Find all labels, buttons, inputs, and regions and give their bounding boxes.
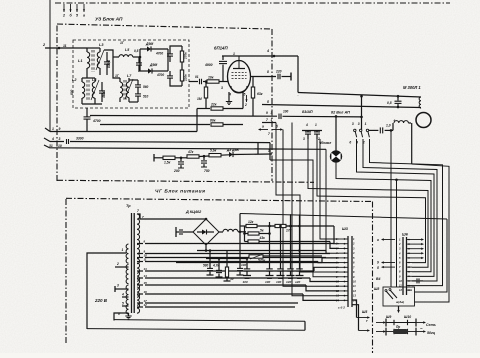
svg-text:1: 1 — [268, 149, 270, 153]
svg-text:Сеть: Сеть — [426, 323, 436, 327]
wire switch-2 to Ш6 — [370, 139, 443, 286]
label 83/АП — [302, 110, 313, 114]
junction lamp-wire — [335, 115, 338, 118]
L2-L4 core — [87, 80, 89, 100]
svg-text:3: 3 — [59, 137, 61, 141]
filter choke — [219, 229, 246, 233]
top feed arrow а — [83, 4, 85, 18]
rail 258 — [206, 258, 246, 260]
label ЧГ Блок питания — [155, 189, 205, 195]
tap 5 — [122, 302, 129, 307]
transformer ground — [125, 313, 131, 319]
anode wire pin 4 — [222, 49, 298, 57]
wire pin7 to Ш3 — [292, 123, 339, 296]
wire а to Ш3 — [283, 130, 339, 287]
capacitor 750 — [201, 156, 210, 173]
svg-text:6: 6 — [349, 141, 351, 145]
svg-text:1М: 1М — [197, 97, 202, 101]
svg-text:800,6: 800,6 — [107, 60, 111, 68]
svg-text:80к: 80к — [210, 119, 216, 123]
switch Ш8 — [383, 287, 415, 306]
wire 43к to Ш3 — [330, 242, 339, 249]
svg-text:82 Вкл АП: 82 Вкл АП — [331, 111, 350, 115]
tube V1 6П14П — [221, 52, 251, 97]
speaker Гр1 — [416, 113, 431, 128]
svg-text:3: 3 — [358, 122, 360, 126]
svg-text:270к: 270к — [184, 52, 188, 60]
secondary tap 16 wire — [137, 290, 339, 300]
svg-text:1: 1 — [365, 122, 367, 126]
wire pin 7-1 — [262, 118, 276, 123]
Ш6 output arrows — [412, 238, 424, 259]
arrow а — [377, 238, 395, 242]
svg-text:5: 5 — [244, 93, 246, 97]
svg-text:3300: 3300 — [76, 137, 84, 141]
resistor 43к — [245, 236, 331, 243]
УЗ block top border — [57, 24, 272, 29]
tube output wire pin 8 — [251, 70, 277, 77]
svg-text:4700: 4700 — [156, 73, 164, 77]
svg-text:Ш9: Ш9 — [386, 315, 391, 319]
junctions — [205, 249, 221, 260]
label 82 Вкл АП — [331, 111, 350, 115]
resistor 63к — [251, 77, 262, 116]
rail riser 1 — [268, 222, 271, 267]
left bent leads — [44, 128, 50, 148]
svg-text:6П14П: 6П14П — [214, 46, 228, 51]
wire 31-10 to Ш3 — [326, 149, 339, 253]
svg-text:100: 100 — [265, 280, 270, 284]
svg-text:9: 9 — [59, 127, 61, 131]
speaker return wire — [262, 100, 421, 108]
arrow 9 — [377, 261, 395, 265]
wire pin 7-1 to Ш3 — [276, 123, 339, 273]
svg-text:3: 3 — [221, 86, 223, 90]
top feed arrow б — [69, 4, 72, 18]
bridge left terminal — [176, 227, 193, 237]
svg-text:а: а — [83, 14, 85, 18]
svg-text:2: 2 — [244, 103, 247, 107]
tuner coil compartment (dashed) — [73, 40, 189, 108]
svg-text:220: 220 — [275, 70, 282, 74]
svg-text:510: 510 — [143, 95, 149, 99]
stub 4-3 — [269, 143, 271, 160]
resistor 5,6к — [209, 149, 229, 157]
svg-text:2: 2 — [116, 262, 119, 266]
svg-text:Ш8: Ш8 — [374, 287, 379, 291]
svg-text:ж(Ав): ж(Ав) — [395, 300, 404, 304]
capacitor 100 first — [237, 232, 247, 275]
inductor L3 with trimmer — [96, 43, 104, 75]
svg-text:83/АП: 83/АП — [302, 110, 313, 114]
capacitor 1,0 — [369, 119, 396, 134]
bottom rail 1 — [114, 320, 305, 331]
svg-text:120: 120 — [286, 280, 291, 284]
L7 wiring — [113, 49, 141, 102]
svg-text:100: 100 — [241, 263, 246, 267]
speaker feed wire — [298, 93, 421, 98]
antenna terminal — [290, 73, 292, 81]
junction — [297, 94, 299, 96]
capacitor 200 — [173, 157, 184, 174]
wire pin 9-3 — [90, 111, 277, 116]
svg-text:а: а — [377, 238, 379, 242]
labels 580 4,7к — [203, 264, 219, 268]
svg-text:220к: 220к — [184, 74, 188, 82]
detector wiring — [168, 46, 182, 86]
wire switch-6 to Ш6 — [357, 139, 435, 276]
svg-text:Ш10: Ш10 — [404, 315, 411, 319]
svg-text:5: 5 — [122, 302, 124, 306]
inductor L2 — [72, 78, 85, 104]
svg-text:50гц: 50гц — [427, 331, 436, 335]
capacitor L4 tank — [99, 82, 105, 102]
secondary tap 15 wire — [137, 281, 339, 291]
secondary tap 9 wire — [137, 250, 330, 254]
bridge rectifier Д КЦ402 — [193, 219, 219, 245]
svg-text:1,5к: 1,5к — [164, 161, 171, 165]
secondary tap 12 wire — [137, 303, 295, 307]
resistor 570к — [246, 255, 322, 263]
svg-text:560: 560 — [143, 85, 149, 89]
wire anode riser — [297, 56, 299, 93]
svg-text:11: 11 — [63, 44, 67, 48]
label В4 — [376, 277, 380, 281]
secondary tap 10 wire — [137, 254, 326, 258]
svg-text:0,5: 0,5 — [134, 49, 139, 53]
capacitor 01 — [189, 75, 206, 84]
tap 2 — [115, 262, 129, 267]
wire cap3 down — [308, 139, 428, 267]
rail 250 — [197, 251, 326, 253]
secondary tap 17 wire — [137, 299, 298, 303]
secondary tap 13 wire — [137, 267, 339, 271]
power block right border — [372, 202, 374, 354]
svg-text:4: 4 — [121, 293, 124, 297]
svg-text:1: 1 — [315, 123, 317, 127]
svg-text:1,0: 1,0 — [386, 124, 391, 128]
diode Д2 Д9М — [140, 63, 168, 74]
svg-text:L1: L1 — [78, 59, 82, 63]
svg-text:3: 3 — [117, 284, 119, 288]
capacitor 510 — [135, 90, 149, 102]
mains connector rails — [386, 319, 416, 336]
svg-text:30: 30 — [230, 277, 234, 281]
label Тр — [126, 204, 139, 213]
wire to Ш3 p9 — [270, 160, 339, 277]
labels Ш9 Ш10 — [386, 315, 411, 319]
dual capacitor 4700 — [302, 123, 322, 141]
label 220 В — [94, 298, 108, 303]
svg-text:7: 7 — [137, 209, 139, 213]
svg-text:Тр: Тр — [126, 204, 131, 208]
label Ш8 — [374, 287, 379, 291]
label М 300Л 1 — [403, 85, 421, 90]
top feed arrow 5 — [76, 4, 79, 18]
secondary tap 8 wire — [137, 240, 334, 244]
filter capacitor bank — [243, 259, 304, 285]
svg-text:Д КЦ402: Д КЦ402 — [185, 210, 202, 214]
wire switch-4 to Ш6 — [363, 139, 437, 281]
capacitor L3 tank — [104, 52, 110, 75]
svg-text:Пр: Пр — [396, 325, 400, 329]
svg-text:4,7к: 4,7к — [212, 264, 219, 268]
bottom rail 2 (mains) — [87, 329, 305, 331]
resistor 22к — [197, 103, 243, 111]
capacitor 0,5 — [134, 49, 142, 72]
switch В2 Вкл АП — [349, 95, 369, 145]
tube pin 5 lead — [243, 92, 248, 109]
capacitor 580 — [207, 251, 214, 279]
wire to Ш5 lower — [352, 305, 370, 332]
rail riser 2 — [279, 225, 282, 267]
svg-text:4700: 4700 — [92, 119, 101, 123]
svg-text:4: 4 — [305, 123, 308, 127]
diode Д3 Д9В — [226, 148, 272, 157]
tap 4 — [121, 293, 129, 298]
secondary tap 11 wire — [137, 258, 339, 263]
resistor 47к — [187, 150, 209, 158]
capacitor on pin 7 — [412, 278, 423, 283]
svg-text:22к: 22к — [210, 103, 217, 107]
resistor 12к — [240, 220, 334, 228]
link 4-3 to diode chain — [257, 142, 259, 154]
transformer core — [132, 213, 135, 313]
label Д КЦ402 — [185, 210, 202, 214]
inductor L5 — [113, 41, 140, 57]
capacitor 220 — [275, 70, 291, 80]
wire to Ш3 pin 1 — [320, 139, 339, 239]
svg-text:580: 580 — [203, 264, 209, 268]
svg-text:Чбнамл: Чбнамл — [319, 141, 331, 145]
wire 1-9 — [50, 127, 197, 132]
svg-text:Ш6: Ш6 — [402, 233, 409, 237]
rail riser 3 — [289, 214, 292, 266]
speaker return riser — [411, 123, 413, 164]
resistor 10к grid stopper — [207, 76, 228, 84]
L1-L3 core — [92, 50, 94, 72]
input bus wire — [49, 0, 51, 131]
capacitor 4900 — [204, 56, 227, 81]
input terminal — [154, 154, 163, 162]
svg-text:4700: 4700 — [155, 52, 163, 56]
value 800,6 — [107, 60, 111, 68]
mains output arrows — [416, 321, 426, 332]
B+ rail to relay — [240, 214, 447, 293]
svg-text:100: 100 — [243, 280, 248, 284]
wire lamp to Ш6 — [336, 163, 431, 272]
svg-text:43к: 43к — [259, 236, 266, 240]
svg-text:М 300Л 1: М 300Л 1 — [403, 85, 421, 90]
svg-text:9: 9 — [266, 111, 268, 115]
svg-text:220 В: 220 В — [94, 298, 108, 303]
tap 3 — [115, 284, 129, 293]
resistor 4,7к — [224, 251, 234, 282]
wire cap2 down — [317, 139, 426, 263]
value 4600 — [102, 91, 106, 99]
svg-text:200: 200 — [173, 169, 180, 173]
resistor 80к — [100, 119, 243, 127]
inductor L1 — [78, 48, 90, 75]
capacitor 560 — [135, 80, 149, 90]
top feed arrow 2 — [62, 4, 65, 18]
УЗ block left border — [56, 24, 58, 181]
svg-text:х20: х20 — [294, 280, 300, 284]
resistor 220к — [180, 66, 187, 86]
svg-text:570к: 570к — [258, 259, 266, 263]
svg-text:7: 7 — [266, 118, 268, 122]
label Сеть 50гц — [420, 323, 436, 335]
svg-text:В4: В4 — [376, 277, 380, 281]
rail 262 to Ш3 — [176, 258, 339, 263]
capacitor 4700 shunt — [84, 108, 101, 131]
svg-text:1: 1 — [122, 248, 124, 252]
svg-text:7: 7 — [268, 132, 270, 136]
wire 31-10 — [49, 144, 326, 149]
relay down arrow — [397, 306, 400, 313]
svg-text:4: 4 — [51, 137, 54, 141]
wire L3 to L5 — [104, 50, 113, 57]
svg-text:Ш5: Ш5 — [362, 310, 367, 314]
bridge top feed — [191, 218, 207, 221]
svg-text:0,5: 0,5 — [387, 101, 392, 105]
fuse Пр — [393, 325, 408, 334]
svg-text:3: 3 — [271, 111, 273, 115]
svg-text:8: 8 — [267, 70, 269, 74]
svg-text:Д3 Д9В: Д3 Д9В — [226, 148, 239, 152]
resistor 5к — [245, 229, 270, 236]
riser to relay a — [390, 129, 393, 287]
svg-text:10к: 10к — [208, 76, 214, 80]
capacitor 4700 (2) — [156, 71, 173, 84]
label с б 2 — [338, 306, 345, 310]
upper block boundary (dash-dot, cut off at top) — [55, 2, 450, 4]
svg-text:12к: 12к — [248, 220, 254, 224]
resistor 1,5к — [163, 156, 187, 164]
svg-text:01: 01 — [195, 75, 199, 79]
lamp Л1 — [330, 116, 342, 163]
value 800 — [70, 89, 74, 95]
wire to Ш5 upper — [352, 300, 370, 319]
riser to relay b — [395, 179, 398, 288]
label — [319, 141, 331, 145]
svg-text:2: 2 — [62, 14, 65, 18]
power block top border — [66, 198, 373, 201]
svg-text:47к: 47к — [187, 150, 194, 154]
coupling capacitor 100 — [279, 110, 362, 120]
connector Ш3 — [335, 227, 356, 307]
svg-text:3: 3 — [352, 122, 354, 126]
transformer primary winding — [126, 244, 128, 314]
svg-text:750: 750 — [204, 169, 210, 173]
inductor L6 — [115, 74, 123, 102]
winding 7 wire — [137, 214, 191, 219]
inductor L7 with trimmer — [125, 74, 133, 102]
label УЗ Блок АП — [95, 17, 123, 23]
svg-text:~: ~ — [420, 326, 423, 331]
svg-text:с б 2: с б 2 — [338, 306, 345, 310]
cap1 tap — [246, 257, 249, 260]
resistor 1М grid leak — [197, 80, 208, 108]
svg-text:Г: Г — [366, 319, 368, 323]
svg-text:4600: 4600 — [102, 91, 106, 99]
tap 6 — [118, 312, 129, 316]
tap6 to rail — [114, 313, 121, 321]
УЗ block bottom border — [57, 180, 314, 182]
svg-text:Д9М: Д9М — [149, 63, 157, 67]
capacitor 4700 (1) — [155, 49, 173, 62]
transformer secondary winding — [137, 214, 140, 313]
svg-text:63к: 63к — [257, 92, 263, 96]
svg-text:1: 1 — [52, 127, 54, 131]
wire 4-3 with capacitor 3300 — [50, 137, 270, 145]
svg-text:ЧГ Блок питания: ЧГ Блок питания — [155, 189, 205, 195]
mains wire left — [87, 253, 126, 329]
capacitor 30 — [216, 259, 223, 278]
svg-text:800: 800 — [70, 89, 74, 95]
svg-text:3: 3 — [303, 137, 305, 141]
wire speaker return to Ш8 — [412, 164, 449, 302]
arrow б — [377, 266, 395, 270]
svg-text:9: 9 — [377, 261, 379, 265]
mains input arrows — [376, 321, 386, 332]
svg-text:100: 100 — [276, 280, 281, 284]
inductor L4 with trimmer — [91, 78, 99, 104]
coupling coil — [385, 121, 411, 131]
svg-text:УЗ Блок АП: УЗ Блок АП — [95, 17, 123, 23]
УЗ block right border — [271, 29, 273, 181]
svg-text:100: 100 — [283, 110, 289, 114]
diode Д1 Д9М — [140, 42, 168, 52]
power block left border — [65, 199, 67, 345]
resistor bus — [243, 226, 246, 242]
output transformer winding — [419, 97, 421, 108]
tap 1 — [122, 248, 124, 252]
label 6П14П — [214, 46, 228, 51]
svg-text:Ш3: Ш3 — [342, 227, 349, 231]
svg-text:Д9М: Д9М — [145, 42, 153, 46]
B+ riser — [239, 214, 241, 232]
wire 12к to Ш3 — [334, 226, 339, 244]
resistor 17к — [270, 224, 300, 232]
L6-L7 core — [124, 80, 126, 100]
svg-text:5к: 5к — [260, 229, 264, 233]
capacitor 0,5 — [387, 95, 402, 108]
tuner internal wires — [82, 48, 102, 104]
wire 22к to bus — [196, 109, 198, 132]
secondary tap 14 wire — [137, 274, 339, 281]
cathode ground — [226, 92, 232, 104]
bridge bottom lead — [205, 245, 207, 251]
node 2-11 input wire — [42, 43, 87, 49]
rail riser 4 — [298, 214, 301, 266]
resistor 270к — [180, 46, 187, 66]
svg-text:4: 4 — [266, 49, 269, 53]
svg-text:а: а — [262, 125, 264, 129]
svg-text:4900: 4900 — [204, 63, 213, 67]
svg-text:1: 1 — [271, 118, 273, 122]
antenna arrows а-б — [258, 125, 283, 137]
connector Ш6 — [398, 233, 412, 296]
svg-text:5,6к: 5,6к — [210, 149, 217, 153]
